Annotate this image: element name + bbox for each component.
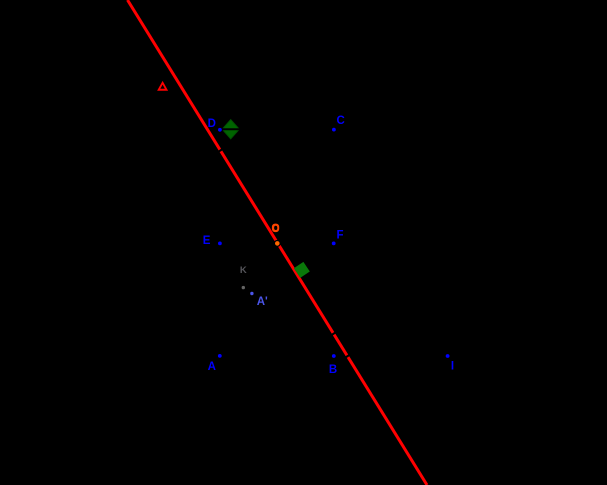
svg-text:A': A' — [257, 296, 268, 308]
svg-text:D: D — [208, 118, 216, 130]
node F — [331, 241, 336, 246]
label Delta — [157, 81, 168, 91]
polygon square right-angle marker — [294, 262, 310, 278]
node K — [241, 285, 245, 289]
svg-text:K: K — [240, 265, 247, 276]
node I — [445, 354, 450, 359]
wire line Delta — [128, 0, 428, 485]
svg-text:F: F — [337, 229, 344, 241]
svg-text:C: C — [337, 115, 345, 127]
svg-text:A: A — [208, 361, 216, 373]
label O — [272, 224, 279, 233]
node gap2 on line — [331, 332, 337, 336]
node B — [331, 354, 336, 359]
node O — [274, 241, 280, 247]
node gap3 on line — [345, 355, 351, 359]
polygon diamond at D — [222, 120, 241, 139]
node A' — [250, 291, 254, 295]
svg-text:E: E — [203, 235, 211, 247]
node A — [217, 354, 222, 359]
node D — [218, 127, 223, 132]
svg-text:I: I — [451, 361, 454, 373]
svg-text:B: B — [329, 364, 337, 376]
node gap1 on line — [218, 149, 224, 153]
node E — [218, 241, 223, 246]
node C — [332, 127, 337, 132]
